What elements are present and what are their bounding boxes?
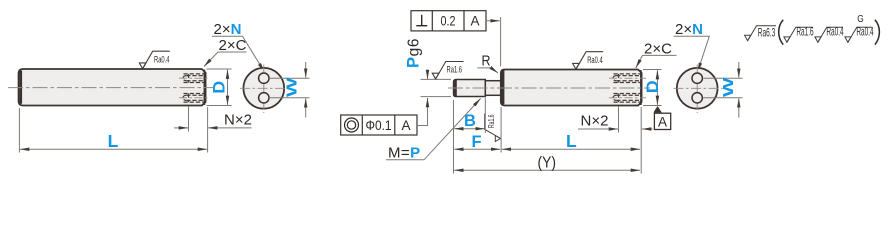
end view hole lower (left) — [259, 93, 269, 103]
dimension L (left): extension lines — [18, 108, 20, 153]
svg-text:2×C: 2×C — [219, 37, 247, 54]
legend symbol Ra0.4 (second) — [815, 27, 843, 42]
tapped hole upper right (hidden lines) — [613, 74, 640, 83]
left shaft right end face — [203, 70, 205, 105]
svg-text:Ra1.6: Ra1.6 — [796, 24, 813, 38]
svg-text:A: A — [401, 118, 410, 133]
svg-text:Pg6: Pg6 — [404, 38, 422, 68]
svg-text:Ra1.6: Ra1.6 — [447, 65, 463, 76]
dimension W (right): dim line, outside arrows — [738, 62, 740, 78]
fcf perpendicularity symbol — [416, 15, 427, 26]
dimension D (left): extension lines — [207, 68, 232, 70]
svg-text:N×2: N×2 — [581, 112, 609, 129]
dimension W (left): dim line, outside arrows — [305, 62, 307, 78]
svg-text:L: L — [108, 131, 119, 151]
legend symbol Ra6.3 — [745, 26, 776, 41]
svg-text:0.2: 0.2 — [441, 14, 456, 29]
left shaft body — [19, 69, 206, 106]
Pg6 dimension: upper arrow — [427, 70, 429, 79]
dimension D (right): extension lines — [643, 69, 662, 71]
tapped hole lower right (hidden lines) — [613, 94, 640, 103]
svg-text:W: W — [721, 77, 737, 97]
datum A box — [654, 113, 670, 129]
svg-text:L: L — [566, 131, 577, 151]
end view hole upper (left) — [259, 73, 269, 83]
svg-text:A: A — [470, 14, 479, 29]
dimension (Y): dim line — [454, 169, 640, 171]
extension line small shaft left face — [453, 100, 455, 174]
big shaft body — [501, 70, 642, 106]
end view circle (right) — [677, 68, 718, 109]
dimension N×2 (left): dim line, outside arrows — [174, 127, 188, 129]
svg-text:Ra0.4: Ra0.4 — [856, 24, 873, 38]
big shaft right end face — [640, 70, 642, 105]
fcf leader arrow — [486, 20, 500, 22]
svg-text:D: D — [211, 81, 229, 94]
extension line big shaft right face — [640, 107, 642, 174]
concentricity leader (elbow up to shaft) — [417, 98, 428, 126]
svg-text:Ra1.6: Ra1.6 — [486, 114, 496, 128]
svg-text:Ra0.4: Ra0.4 — [154, 54, 170, 65]
dimension L (right): dim line — [502, 148, 640, 150]
svg-text:G: G — [857, 13, 864, 25]
extension line big shaft left face — [500, 107, 502, 153]
tapped hole lower right centerline — [609, 97, 646, 99]
undercut groove — [485, 81, 501, 96]
end view centerlines (left) — [240, 87, 289, 89]
svg-text:W: W — [285, 77, 301, 97]
tapped hole upper (hidden lines) — [183, 74, 204, 83]
left shaft left end dark bar — [19, 71, 22, 104]
legend open paren — [779, 20, 784, 45]
big shaft left end dark bar — [502, 70, 505, 104]
small shaft left end dark bar — [454, 80, 457, 96]
dimension B: dim line — [454, 128, 485, 130]
end view hole lower (right) — [692, 93, 702, 103]
svg-text:2×N: 2×N — [675, 21, 703, 38]
surface symbol Ra1.6 (small shaft) — [432, 62, 463, 79]
Pg6 dimension: extension lines — [421, 78, 452, 80]
svg-text:D: D — [644, 80, 662, 93]
svg-text:R: R — [482, 53, 491, 69]
dimension W (right): extension lines — [704, 77, 743, 79]
dimension D (left): dim line with arrows — [227, 70, 229, 105]
legend symbol Ra1.6 — [784, 27, 813, 42]
dimension N×2 (left): extension lines — [188, 106, 190, 132]
svg-text:A: A — [658, 114, 667, 129]
dimension N×2 (right): dim line, outside arrows — [604, 128, 618, 130]
dimension F: dim line — [454, 148, 500, 150]
concentricity symbol — [345, 118, 359, 132]
tapped hole lower (hidden lines) — [183, 94, 204, 103]
svg-text:2×N: 2×N — [214, 21, 242, 38]
dimension L (left): dim line — [20, 148, 207, 150]
centerline (right view) — [448, 87, 650, 89]
legend symbol G Ra0.4 (ground) — [845, 27, 872, 42]
tapped hole upper right centerline — [609, 77, 646, 79]
svg-text:Ra6.3: Ra6.3 — [758, 25, 776, 39]
extension line groove start — [484, 98, 486, 133]
svg-text:M=P: M=P — [388, 145, 420, 162]
dimension N×2 (right): extension line — [618, 106, 620, 133]
svg-text:F: F — [472, 133, 482, 151]
legend close paren — [875, 20, 880, 45]
tapped hole upper centerline — [179, 77, 210, 79]
datum A triangle — [653, 106, 661, 113]
svg-text:(Y): (Y) — [538, 154, 557, 171]
dimension W (left): extension lines — [270, 77, 310, 79]
end view centerlines (right) — [674, 87, 723, 89]
end view circle (left) — [243, 68, 284, 109]
concentricity fcf frame — [341, 115, 417, 135]
svg-text:N×2: N×2 — [224, 111, 252, 128]
svg-text:Φ0.1: Φ0.1 — [366, 118, 392, 133]
fillet leader — [478, 68, 498, 73]
small shaft P section — [454, 80, 486, 97]
surface symbol Ra0.4 (left shaft) — [139, 51, 170, 68]
centerline (left shaft) — [8, 87, 214, 89]
svg-text:Ra0.4: Ra0.4 — [826, 24, 843, 38]
end view hole upper (right) — [692, 73, 702, 83]
dimension D (right): dim line — [656, 70, 658, 105]
groove surface symbol Ra1.6 (rotated) — [485, 114, 501, 142]
tapped hole lower centerline — [179, 97, 210, 99]
datum face extension line — [500, 17, 502, 67]
fcf perpendicularity frame — [411, 11, 486, 31]
svg-text:Ra0.4: Ra0.4 — [587, 55, 603, 66]
surface symbol Ra0.4 (big shaft) — [573, 52, 604, 69]
